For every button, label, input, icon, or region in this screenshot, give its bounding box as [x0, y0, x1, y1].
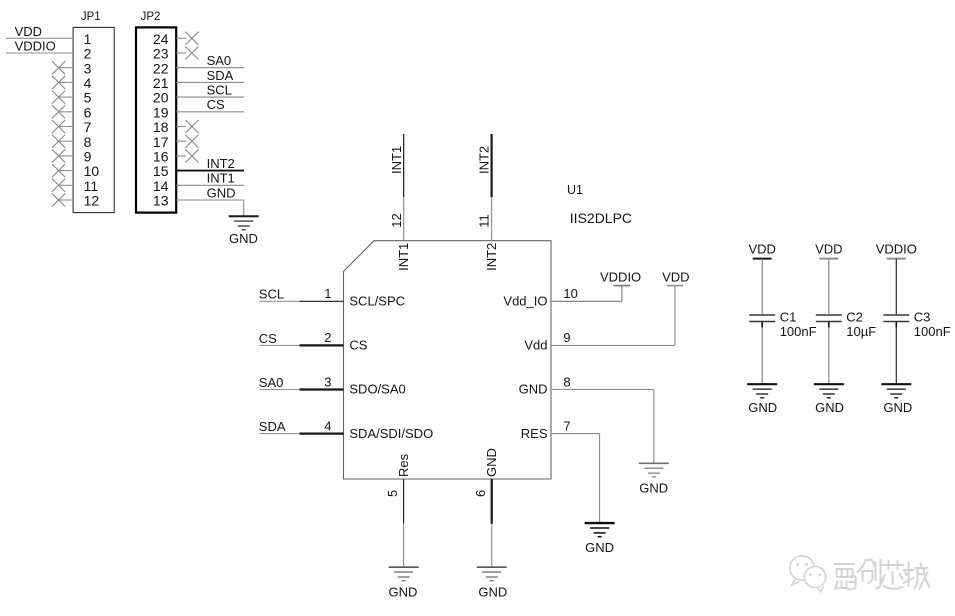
svg-text:4: 4 [84, 75, 92, 91]
svg-text:3: 3 [324, 374, 331, 389]
svg-text:GND: GND [519, 382, 548, 397]
svg-text:VDD: VDD [748, 241, 775, 256]
svg-text:15: 15 [153, 163, 169, 179]
svg-text:SDA/SDI/SDO: SDA/SDI/SDO [349, 426, 433, 441]
svg-text:Vdd_IO: Vdd_IO [503, 294, 547, 309]
svg-text:RES: RES [521, 426, 548, 441]
svg-text:INT1: INT1 [207, 171, 235, 186]
svg-text:4: 4 [324, 418, 331, 433]
svg-text:JP2: JP2 [141, 11, 161, 23]
svg-text:C3: C3 [914, 309, 931, 324]
svg-text:24: 24 [153, 31, 169, 47]
svg-text:CS: CS [259, 331, 277, 346]
svg-text:VDD: VDD [15, 24, 42, 39]
svg-text:VDDIO: VDDIO [600, 269, 641, 284]
svg-text:5: 5 [84, 90, 92, 106]
svg-text:9: 9 [563, 330, 570, 345]
svg-text:23: 23 [153, 46, 169, 62]
svg-text:1: 1 [84, 31, 92, 47]
svg-text:GND: GND [748, 400, 777, 415]
svg-text:7: 7 [563, 418, 570, 433]
svg-text:SA0: SA0 [207, 53, 232, 68]
svg-text:U1: U1 [567, 183, 583, 197]
svg-text:19: 19 [153, 104, 169, 120]
svg-text:VDD: VDD [662, 269, 689, 284]
svg-text:8: 8 [563, 374, 570, 389]
svg-text:20: 20 [153, 90, 169, 106]
svg-text:12: 12 [84, 193, 100, 209]
svg-text:12: 12 [389, 213, 404, 227]
svg-text:13: 13 [153, 193, 169, 209]
svg-text:5: 5 [385, 490, 400, 497]
svg-text:GND: GND [815, 400, 844, 415]
svg-text:INT1: INT1 [396, 243, 411, 271]
svg-text:9: 9 [84, 149, 92, 165]
svg-text:GND: GND [207, 185, 236, 200]
svg-text:GND: GND [585, 540, 614, 555]
svg-text:CS: CS [349, 338, 367, 353]
svg-text:Vdd: Vdd [524, 338, 547, 353]
svg-text:21: 21 [153, 75, 169, 91]
svg-text:INT2: INT2 [477, 146, 492, 174]
svg-text:C1: C1 [780, 309, 797, 324]
svg-text:22: 22 [153, 60, 169, 76]
svg-text:SDO/SA0: SDO/SA0 [349, 382, 405, 397]
svg-text:17: 17 [153, 134, 169, 150]
svg-text:SA0: SA0 [259, 375, 284, 390]
svg-text:IIS2DLPC: IIS2DLPC [570, 210, 632, 226]
svg-text:11: 11 [84, 178, 99, 194]
svg-text:6: 6 [473, 490, 488, 497]
svg-text:14: 14 [153, 178, 169, 194]
svg-text:SDA: SDA [259, 419, 286, 434]
svg-text:100nF: 100nF [780, 324, 817, 339]
svg-text:10: 10 [84, 163, 100, 179]
svg-text:JP1: JP1 [81, 11, 101, 23]
svg-text:GND: GND [883, 400, 912, 415]
svg-text:VDD: VDD [815, 241, 842, 256]
svg-text:2: 2 [84, 46, 92, 62]
svg-text:C2: C2 [846, 309, 863, 324]
svg-text:SCL/SPC: SCL/SPC [349, 294, 405, 309]
svg-text:16: 16 [153, 149, 169, 165]
svg-text:SDA: SDA [207, 68, 234, 83]
svg-text:GND: GND [484, 448, 499, 477]
svg-text:18: 18 [153, 119, 169, 135]
svg-text:CS: CS [207, 97, 225, 112]
svg-text:VDDIO: VDDIO [876, 241, 917, 256]
svg-text:3: 3 [84, 60, 92, 76]
svg-text:INT1: INT1 [389, 146, 404, 174]
svg-text:VDDIO: VDDIO [15, 39, 56, 54]
svg-text:8: 8 [84, 134, 92, 150]
svg-text:INT2: INT2 [484, 243, 499, 271]
svg-text:2: 2 [324, 330, 331, 345]
svg-text:Res: Res [396, 453, 411, 477]
svg-text:10µF: 10µF [846, 324, 876, 339]
svg-text:7: 7 [84, 119, 92, 135]
svg-text:SCL: SCL [259, 287, 284, 302]
svg-text:100nF: 100nF [914, 324, 951, 339]
svg-text:GND: GND [389, 584, 418, 599]
svg-text:6: 6 [84, 104, 92, 120]
svg-text:GND: GND [229, 231, 258, 246]
svg-text:GND: GND [639, 480, 668, 495]
svg-text:GND: GND [478, 584, 507, 599]
svg-text:1: 1 [324, 286, 331, 301]
svg-text:11: 11 [477, 214, 492, 228]
svg-text:SCL: SCL [207, 83, 232, 98]
svg-text:INT2: INT2 [207, 156, 235, 171]
svg-text:10: 10 [563, 286, 577, 301]
